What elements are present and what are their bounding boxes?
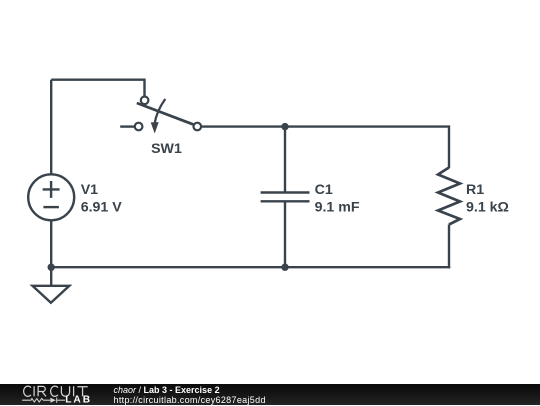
voltage source V1 [28,174,74,220]
node: junction at C1 bottom [281,264,288,271]
ground [33,267,70,303]
label C1 value 9.1 mF [315,182,360,215]
SW1 pole terminal (top) [141,97,149,105]
label R1 value 9.1 kOhm [466,182,509,215]
capacitor C1 [261,193,310,202]
wire V1 top vertical [50,80,52,175]
footer credit line 1 [114,385,220,395]
node: junction at V1- / ground [48,264,55,271]
SW1 lever [137,103,193,124]
svg-text:9.1 mF: 9.1 mF [315,199,360,215]
wire top-left horizontal (V1+ to SW1 pole) [51,80,144,97]
svg-text:LAB: LAB [65,394,92,405]
switch SW1 [120,97,201,134]
wire V1 bottom vertical [50,220,52,267]
wire C1 top vertical [284,127,286,193]
footer bar [0,384,540,405]
svg-text:6.91 V: 6.91 V [81,199,123,215]
CircuitLab logo [0,383,110,406]
wire C1 bottom vertical [284,201,286,267]
label V1 value 6.91 V [81,182,123,215]
SW1 actuation arrow [155,99,166,124]
wire SW1 throw to R1 (top horizontal) [201,125,449,127]
svg-text:C1: C1 [315,182,333,198]
svg-text:R1: R1 [466,182,484,198]
svg-text:V1: V1 [81,182,98,198]
resistor R1 [438,168,460,225]
wire R1 top vertical [448,125,450,168]
SW1 unused throw terminal (left) with stub wire [120,125,134,127]
footer credit line 2 [114,395,266,405]
node: junction at C1 top [281,123,288,130]
SW1 closed throw terminal (right) [194,123,202,131]
wire R1 bottom vertical [448,225,450,269]
wire bottom horizontal (ground net) [51,266,450,268]
svg-text:SW1: SW1 [151,141,182,157]
svg-text:9.1 kΩ: 9.1 kΩ [466,199,509,215]
